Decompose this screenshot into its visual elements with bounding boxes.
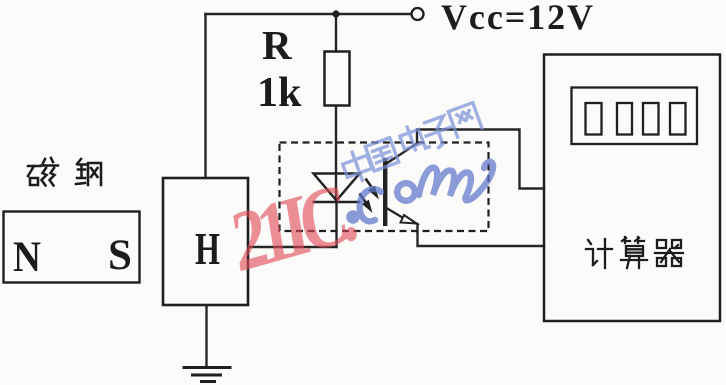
magnet (N S block) (4, 212, 140, 283)
ground (183, 368, 232, 382)
node A junction dot (332, 10, 339, 17)
display window (572, 88, 698, 145)
svg-text:Vcc=12V: Vcc=12V (441, 0, 593, 37)
中 (340, 148, 375, 185)
svg-text:H: H (195, 223, 220, 274)
wire LED cathode down (335, 203, 337, 248)
wire Hall sensor to ground (205, 305, 207, 366)
label 计算器 (computer/calculator) (586, 237, 683, 268)
网 (448, 103, 482, 137)
器 (655, 240, 683, 266)
svg-text:R: R (262, 22, 292, 68)
wire resistor drop from junction (335, 14, 337, 52)
国 (365, 138, 398, 171)
terminal Vcc (412, 8, 424, 20)
算 (621, 237, 647, 268)
wire left vertical to Hall sensor (204, 14, 206, 178)
Hall sensor U1 (163, 178, 248, 305)
wire top horizontal Vcc rail (206, 13, 412, 15)
wire collector to computer (387, 130, 545, 189)
LED D1 (313, 174, 361, 203)
label 磁钢 (magnet steel) (28, 158, 101, 186)
display segment 3 (643, 103, 659, 135)
svg-text:N: N (13, 234, 41, 281)
resistor R1 (325, 52, 350, 106)
wire LED return to Hall sensor (248, 246, 337, 248)
display segment 1 (586, 103, 602, 135)
钢 (76, 159, 101, 185)
svg-text:1k: 1k (257, 70, 302, 116)
display segment 4 (670, 103, 686, 135)
phototransistor Q1 (383, 158, 417, 226)
svg-text:S: S (108, 232, 132, 279)
watermark 21IC red (225, 162, 361, 291)
计 (586, 239, 612, 268)
子 (422, 115, 457, 151)
computer box (544, 55, 720, 322)
磁 (28, 158, 58, 186)
watermark 中国电子网 blue outline (340, 103, 482, 185)
wire emitter to computer (418, 224, 545, 246)
display segment 2 (617, 103, 632, 135)
watermark blue .com script (346, 162, 493, 224)
optocoupler dashed enclosure (280, 143, 489, 232)
wire resistor to LED anode (335, 106, 337, 201)
电 (398, 122, 429, 155)
light arrows (360, 179, 380, 214)
